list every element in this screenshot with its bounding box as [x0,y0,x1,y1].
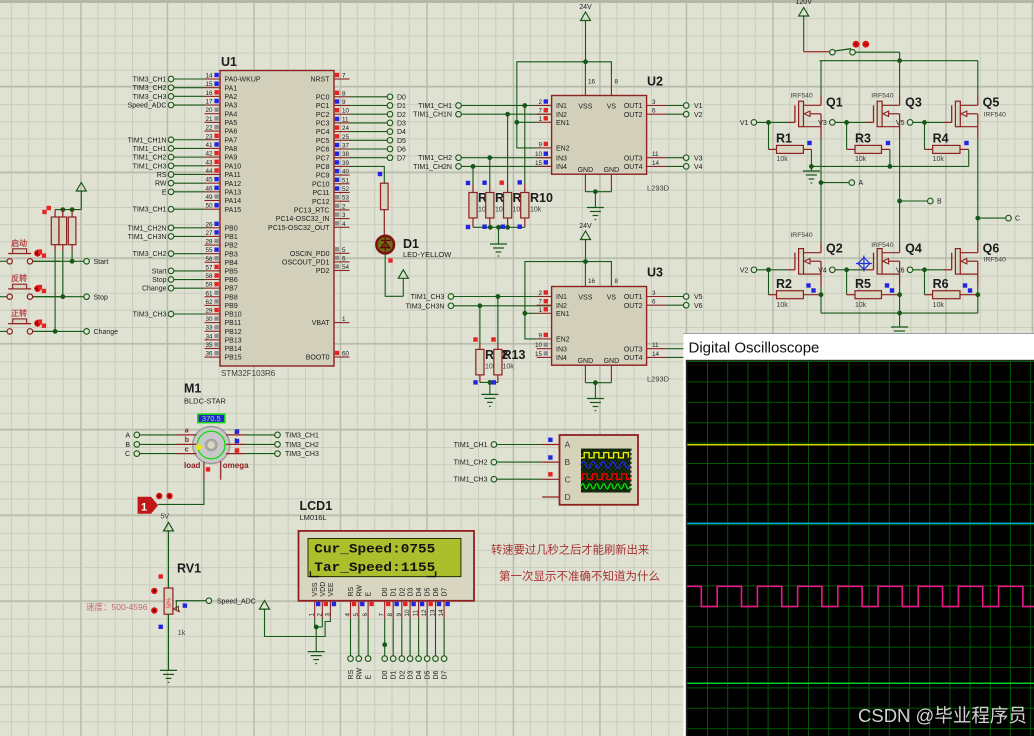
active label 1 5V supply tag [138,480,204,521]
svg-text:VS: VS [607,295,617,302]
svg-text:58: 58 [205,273,213,280]
gate terminal V6 for Q6 [896,267,952,274]
svg-text:5V: 5V [161,514,170,521]
svg-text:D6: D6 [433,670,440,679]
resistor R5 10k [847,270,902,309]
svg-text:TIM1_CH2: TIM1_CH2 [418,155,452,162]
svg-text:B: B [125,442,130,449]
svg-text:TIM1_CH1N: TIM1_CH1N [413,112,452,119]
svg-text:PB15: PB15 [225,355,242,362]
svg-text:53: 53 [342,195,350,202]
svg-text:15: 15 [535,160,543,167]
gate terminal V5 for Q5 [896,120,952,127]
net label TIM3_CH3N terminal to U3 IN2 [406,303,552,310]
svg-text:5: 5 [342,247,346,254]
svg-text:PC5: PC5 [316,138,330,145]
svg-text:4: 4 [345,613,352,617]
svg-text:16: 16 [588,278,596,285]
svg-text:33: 33 [205,325,213,332]
svg-text:20: 20 [205,107,213,114]
svg-text:TIM1_CH2: TIM1_CH2 [454,460,488,467]
svg-text:PC13_RTC: PC13_RTC [294,208,330,215]
svg-text:61: 61 [205,290,213,297]
svg-text:EN2: EN2 [556,146,570,153]
LED D1 LED-YELLOW [376,235,452,263]
svg-text:PA12: PA12 [225,181,242,188]
svg-text:14: 14 [652,351,660,358]
svg-text:启动: 启动 [11,238,27,248]
svg-text:TIM3_CH1: TIM3_CH1 [133,207,167,214]
svg-text:IRF540: IRF540 [984,111,1007,118]
svg-text:C: C [1015,216,1020,223]
svg-text:IRF540: IRF540 [790,92,813,99]
svg-text:V5: V5 [694,294,703,301]
gate terminal V2 for Q2 [740,267,795,274]
svg-text:TIM3_CH3: TIM3_CH3 [285,451,319,458]
svg-text:12: 12 [421,609,428,617]
svg-text:Speed_ADC: Speed_ADC [217,598,256,605]
upper gate resistor ground rail [803,164,969,183]
svg-text:TIM3_CH1: TIM3_CH1 [133,77,167,84]
resistor on PC8 line feeding LED [350,166,389,234]
svg-text:49: 49 [205,194,213,201]
motor phase terminals A B C left [125,428,197,459]
svg-text:1: 1 [309,613,316,617]
svg-text:34: 34 [205,333,213,340]
svg-text:TIM1_CH2N: TIM1_CH2N [128,225,167,232]
svg-text:PA5: PA5 [225,120,238,127]
svg-text:3: 3 [324,613,331,617]
svg-text:55: 55 [205,247,213,254]
svg-text:IN1: IN1 [556,103,567,110]
svg-text:59: 59 [205,282,213,289]
net label TIM1_CH2 terminal to U2 IN3 [418,155,551,162]
resistors R12 R13 10k [473,294,525,406]
svg-text:14: 14 [205,73,213,80]
svg-text:PA9: PA9 [225,155,238,162]
svg-text:PA8: PA8 [225,146,238,153]
svg-text:Q5: Q5 [983,96,1000,110]
svg-text:RV1: RV1 [177,562,201,576]
motor sensor terminals to TIM3 channels right [226,429,319,458]
svg-text:PC4: PC4 [316,129,330,136]
svg-text:GND: GND [578,167,594,174]
svg-text:VBAT: VBAT [312,320,330,327]
svg-text:IN1: IN1 [556,294,567,301]
svg-text:PA10: PA10 [225,163,242,170]
svg-text:VDD: VDD [320,582,327,597]
net label TIM1_CH2N terminal to U2 IN4 [413,164,552,171]
transistor Q5 IRF540 [952,61,1006,218]
svg-text:TIM1_CH3: TIM1_CH3 [411,294,445,301]
power switch SW top right [804,41,900,61]
svg-text:PD2: PD2 [316,268,330,275]
svg-text:9: 9 [538,332,542,339]
svg-text:VEE: VEE [328,582,335,596]
svg-text:7: 7 [342,73,346,80]
svg-text:V4: V4 [694,164,703,171]
origin marker blue crosshair [856,256,872,272]
svg-text:R13: R13 [503,348,526,362]
net label TIM1_CH3 terminal to U3 IN1 [411,294,552,301]
svg-text:TIM1_CH3N: TIM1_CH3N [128,234,167,241]
svg-text:IN3: IN3 [556,155,567,162]
svg-text:PA2: PA2 [225,94,238,101]
svg-text:E: E [366,675,373,680]
LCD control terminals RS RW E [348,618,373,679]
motor M1 BLDC-STAR [184,382,230,464]
driver U3 L293D body [552,266,670,384]
svg-text:D1: D1 [397,103,406,110]
resistor R3 10k [847,122,891,166]
svg-text:22: 22 [205,125,213,132]
svg-text:PC0: PC0 [316,94,330,101]
Change terminal wire [33,329,118,336]
svg-text:R3: R3 [855,132,871,146]
svg-text:45: 45 [205,177,213,184]
RV1 ground [160,614,177,682]
svg-text:D7: D7 [397,155,406,162]
svg-text:PA0-WKUP: PA0-WKUP [225,77,261,84]
svg-text:PA15: PA15 [225,207,242,214]
transistor Q1 IRF540 [790,61,842,183]
svg-text:TIM3_CH2: TIM3_CH2 [133,85,167,92]
svg-text:B: B [937,199,942,206]
svg-text:L293D: L293D [647,375,670,384]
svg-text:D5: D5 [425,587,432,596]
svg-text:D4: D4 [416,670,423,679]
U2 VSS VS EN1 EN2 supply wiring [514,59,611,148]
U2 top pins VSS VS [578,76,618,111]
svg-text:A: A [125,432,130,439]
svg-text:TIM1_CH2: TIM1_CH2 [133,155,167,162]
top drain rail 120V bus [820,58,978,63]
svg-text:6: 6 [362,613,369,617]
svg-text:LCD1: LCD1 [300,499,333,513]
U2 bottom pins GND GND with ground [578,167,620,220]
svg-text:PA3: PA3 [225,103,238,110]
svg-text:38: 38 [342,151,350,158]
svg-text:L293D: L293D [647,184,670,193]
svg-text:OUT1: OUT1 [624,103,643,110]
svg-text:CSDN @毕业程序员: CSDN @毕业程序员 [858,705,1027,726]
svg-text:2: 2 [342,203,346,210]
5V power arrow above RV1 [164,522,174,588]
svg-text:LM016L: LM016L [300,513,327,522]
svg-text:8: 8 [615,78,619,85]
svg-text:RW: RW [356,585,363,597]
svg-text:TIM3_CH3N: TIM3_CH3N [406,303,445,310]
svg-text:17: 17 [205,99,213,106]
U3 top pins VSS VS [578,276,618,302]
svg-text:7: 7 [538,108,542,115]
scope trace channel C magenta square wave [687,586,1034,606]
svg-text:EN2: EN2 [556,337,570,344]
120V power arrow top right [796,0,813,52]
svg-text:10: 10 [535,342,543,349]
driver U2 L293D body [552,75,670,193]
svg-text:V3: V3 [694,155,703,162]
svg-text:14: 14 [652,160,660,167]
svg-text:9: 9 [342,99,346,106]
U1 right pins NRST PC0-PC15 PD0-PD2 VBAT BOOT0 with pin numbers [268,73,349,362]
svg-text:120V: 120V [796,0,813,6]
svg-text:2: 2 [538,290,542,297]
svg-text:10k: 10k [503,364,515,371]
svg-text:Digital Oscilloscope: Digital Oscilloscope [689,340,820,357]
svg-text:IRF540: IRF540 [790,232,813,239]
svg-text:D3: D3 [408,670,415,679]
svg-text:IRF540: IRF540 [871,242,894,249]
svg-text:11: 11 [342,116,349,123]
svg-text:54: 54 [342,264,350,271]
annotation Chinese line 1 [491,543,649,557]
svg-text:D2: D2 [397,112,406,119]
svg-text:25: 25 [342,134,350,141]
svg-text:IRF540: IRF540 [871,92,894,99]
svg-text:C: C [125,451,130,458]
svg-text:6: 6 [342,255,346,262]
svg-text:D0: D0 [382,587,389,596]
svg-text:13: 13 [430,609,437,617]
svg-text:EN1: EN1 [556,120,570,127]
svg-text:RS: RS [348,586,355,596]
svg-text:15: 15 [205,81,213,88]
transistor Q3 IRF540 [871,61,922,201]
net label TIM1_CH1 terminal to U2 IN1 [418,103,551,110]
svg-text:60: 60 [342,351,350,358]
svg-text:IN2: IN2 [556,303,567,310]
svg-text:U1: U1 [221,55,237,69]
svg-text:30: 30 [205,316,213,323]
svg-text:b: b [185,437,189,444]
svg-text:PB13: PB13 [225,337,242,344]
svg-text:load: load [184,461,201,470]
svg-text:21: 21 [205,116,213,123]
lower source ground rail [821,311,978,339]
U3 left pins IN1 IN2 EN1 EN2 IN3 IN4 [535,290,570,362]
svg-text:Q6: Q6 [983,242,1000,256]
svg-text:第一次显示不准确不知道为什么: 第一次显示不准确不知道为什么 [499,569,660,583]
svg-text:2: 2 [538,99,542,106]
svg-text:44: 44 [205,168,213,175]
svg-text:Start: Start [152,268,167,275]
svg-text:PA13: PA13 [225,189,242,196]
svg-text:PB2: PB2 [225,243,238,250]
svg-text:D0: D0 [382,670,389,679]
svg-text:15: 15 [535,351,543,358]
svg-text:D2: D2 [399,587,406,596]
svg-text:PB4: PB4 [225,260,238,267]
resistor R6 10k [925,270,981,309]
svg-text:3: 3 [652,290,656,297]
svg-text:V6: V6 [896,267,905,274]
svg-text:370.5: 370.5 [202,414,221,423]
svg-text:62: 62 [205,299,213,306]
transistor Q6 IRF540 [952,218,1006,313]
svg-text:PB11: PB11 [225,320,242,327]
svg-text:TIM3_CH2: TIM3_CH2 [285,442,319,449]
transistor Q2 IRF540 [790,183,842,314]
svg-text:57: 57 [205,264,213,271]
svg-text:1: 1 [538,307,542,314]
gate terminal V1 for Q1 [740,120,795,127]
svg-text:50%: 50% [167,597,173,608]
svg-text:D1: D1 [391,587,398,596]
svg-text:IRF540: IRF540 [984,257,1007,264]
svg-text:E: E [162,189,167,196]
power arrow above pull resistors [76,183,86,210]
svg-text:11: 11 [413,609,420,616]
U3 VSS VS EN1 EN2 supply wiring [523,259,612,339]
svg-text:PC10: PC10 [312,181,330,188]
svg-text:OUT1: OUT1 [624,294,643,301]
svg-text:R5: R5 [855,277,871,291]
svg-text:PA11: PA11 [225,172,241,179]
svg-text:R4: R4 [933,132,949,146]
svg-text:正转: 正转 [11,308,27,318]
svg-text:10: 10 [404,609,411,617]
svg-text:Start: Start [94,259,109,266]
CSDN watermark [858,705,1027,726]
U1 left pins PA0-PA15 PB0-PB15 with pin numbers [205,73,261,362]
svg-text:PA6: PA6 [225,129,238,136]
svg-text:TIM3_CH3: TIM3_CH3 [133,94,167,101]
svg-text:RW: RW [356,668,363,680]
svg-text:VS: VS [607,104,617,111]
svg-text:PA7: PA7 [225,137,238,144]
svg-text:GND: GND [604,358,620,365]
svg-text:V2: V2 [694,112,703,119]
resistor R2 10k [769,270,824,309]
svg-text:11: 11 [652,151,659,158]
U2 right pins OUT1-OUT4 with terminals [624,99,703,171]
svg-text:PC7: PC7 [316,155,330,162]
svg-text:OUT2: OUT2 [624,303,643,310]
svg-text:PB14: PB14 [225,346,242,353]
LCD data terminals D0-D7 [382,618,449,679]
svg-text:11: 11 [652,342,659,349]
svg-text:PB5: PB5 [225,269,238,276]
svg-text:PC3: PC3 [316,121,330,128]
svg-text:D3: D3 [408,587,415,596]
svg-text:TIM1_CH1: TIM1_CH1 [454,442,488,449]
potentiometer RV1 1k [151,562,201,637]
svg-text:1: 1 [141,502,147,514]
net label TIM1_CH1N terminal to U2 IN2 [413,111,552,118]
svg-text:EN1: EN1 [556,311,570,318]
svg-text:GND: GND [578,358,594,365]
svg-text:OUT3: OUT3 [624,346,643,353]
svg-text:IN3: IN3 [556,346,567,353]
Stop terminal wire [33,294,108,301]
svg-text:c: c [185,447,189,454]
svg-text:16: 16 [588,78,596,85]
svg-text:IN4: IN4 [556,164,567,171]
svg-text:37: 37 [342,143,350,150]
svg-text:IN4: IN4 [556,355,567,362]
svg-text:E: E [366,592,373,597]
svg-text:Q3: Q3 [905,96,922,110]
svg-text:10k: 10k [933,302,945,309]
svg-text:TIM3_CH2: TIM3_CH2 [133,251,167,258]
svg-text:D1: D1 [403,237,419,251]
svg-text:BOOT0: BOOT0 [306,355,330,362]
svg-text:RW: RW [155,181,167,188]
svg-text:GND: GND [604,167,620,174]
svg-text:26: 26 [205,221,213,228]
svg-text:52: 52 [342,186,350,193]
svg-text:D6: D6 [397,147,406,154]
microcontroller U1 STM32F103R6 body [220,55,334,378]
U2 left pins IN1 IN2 EN1 EN2 IN3 IN4 [535,99,570,171]
Speed_ADC terminal from RV1 wiper [176,598,256,610]
svg-text:U2: U2 [647,75,663,89]
svg-text:24: 24 [342,125,350,132]
oscilloscope window Digital Oscilloscope [683,333,1034,736]
push button reverse (Chinese label fanzhuan) [0,273,60,299]
svg-text:A: A [859,180,864,187]
svg-text:PB9: PB9 [225,303,238,310]
svg-text:PC15-OSC32_OUT: PC15-OSC32_OUT [268,225,330,232]
svg-text:OUT3: OUT3 [624,155,643,162]
svg-text:Change: Change [94,329,119,336]
svg-text:D1: D1 [391,670,398,679]
svg-text:PB12: PB12 [225,329,242,336]
motor speed display 370.5 [198,414,225,423]
svg-text:Stop: Stop [152,277,167,284]
svg-text:OUT4: OUT4 [624,355,643,362]
svg-text:V5: V5 [896,120,905,127]
svg-text:Q2: Q2 [826,242,843,256]
svg-text:IN2: IN2 [556,112,567,119]
svg-text:omega: omega [223,461,249,470]
svg-text:TIM1_CH3: TIM1_CH3 [454,477,488,484]
svg-text:D7: D7 [442,587,449,596]
svg-text:5: 5 [353,613,360,617]
svg-text:D0: D0 [397,94,406,101]
svg-text:2: 2 [316,613,323,617]
svg-text:10: 10 [535,151,543,158]
svg-text:PC2: PC2 [316,112,330,119]
resistor R1 10k [769,122,812,166]
gate terminal V3 for Q3 [818,120,873,127]
svg-text:OSCIN_PD0: OSCIN_PD0 [290,251,330,258]
resistors R7 R8 R9 R10 10k pull network [466,103,553,256]
LCD pin names and stubs [309,582,450,618]
svg-text:LED-YELLOW: LED-YELLOW [403,250,452,259]
svg-text:OSCOUT_PD1: OSCOUT_PD1 [282,260,330,267]
svg-text:RS: RS [348,669,355,679]
svg-text:9: 9 [396,613,403,617]
svg-text:VSS: VSS [578,295,592,302]
svg-text:39: 39 [342,160,350,167]
svg-text:转速要过几秒之后才能刷新出来: 转速要过几秒之后才能刷新出来 [491,543,649,557]
svg-text:PA4: PA4 [225,111,238,118]
svg-text:TIM1_CH1: TIM1_CH1 [133,146,167,153]
svg-text:Q4: Q4 [905,242,922,256]
svg-text:V4: V4 [818,267,827,274]
svg-text:1: 1 [538,116,542,123]
svg-text:PA1: PA1 [225,85,238,92]
svg-text:27: 27 [205,230,213,237]
svg-text:PC1: PC1 [316,103,330,110]
svg-text:35: 35 [205,342,213,349]
svg-text:M1: M1 [184,382,201,396]
svg-text:TIM1_CH1N: TIM1_CH1N [128,137,167,144]
svg-text:29: 29 [205,308,213,315]
svg-text:Tar_Speed:1155: Tar_Speed:1155 [314,560,435,575]
